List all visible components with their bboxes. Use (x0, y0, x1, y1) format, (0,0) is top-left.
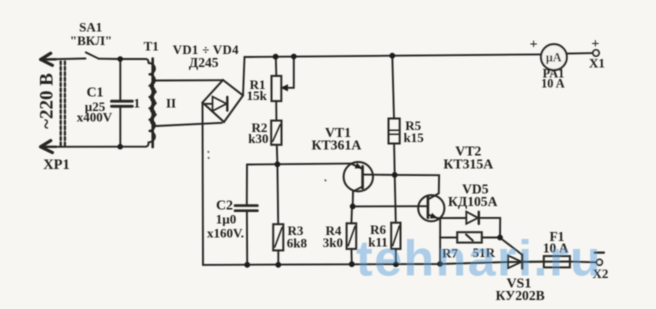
svg-text:6k8: 6k8 (287, 236, 308, 251)
svg-text:КТ315А: КТ315А (443, 157, 493, 172)
svg-text:+: + (591, 37, 599, 52)
svg-text:k30: k30 (248, 131, 268, 146)
svg-text:x400V: x400V (77, 109, 113, 124)
svg-text:КУ202В: КУ202В (496, 288, 545, 303)
svg-text:II: II (166, 95, 176, 110)
svg-text:КТ361А: КТ361А (311, 138, 361, 153)
svg-text:10 A: 10 A (541, 77, 565, 91)
svg-text:Д245: Д245 (189, 55, 219, 70)
svg-text:"ВКЛ": "ВКЛ" (70, 33, 112, 48)
svg-text:~220 В: ~220 В (37, 73, 58, 129)
svg-text:k15: k15 (403, 130, 424, 145)
svg-text:T1: T1 (144, 38, 159, 53)
svg-text:1µ0: 1µ0 (216, 212, 237, 227)
svg-text:1: 1 (134, 96, 141, 111)
svg-text:µА: µА (546, 51, 562, 65)
svg-text:3k0: 3k0 (323, 235, 343, 250)
svg-text:tehnari.ru: tehnari.ru (356, 231, 601, 287)
svg-text:КД105А: КД105А (448, 194, 498, 209)
svg-text:+: + (530, 38, 538, 53)
svg-text:ХР1: ХР1 (43, 157, 70, 173)
svg-text:x160V.: x160V. (207, 226, 244, 241)
svg-text:15k: 15k (247, 88, 268, 103)
svg-text:X1: X1 (589, 55, 605, 70)
